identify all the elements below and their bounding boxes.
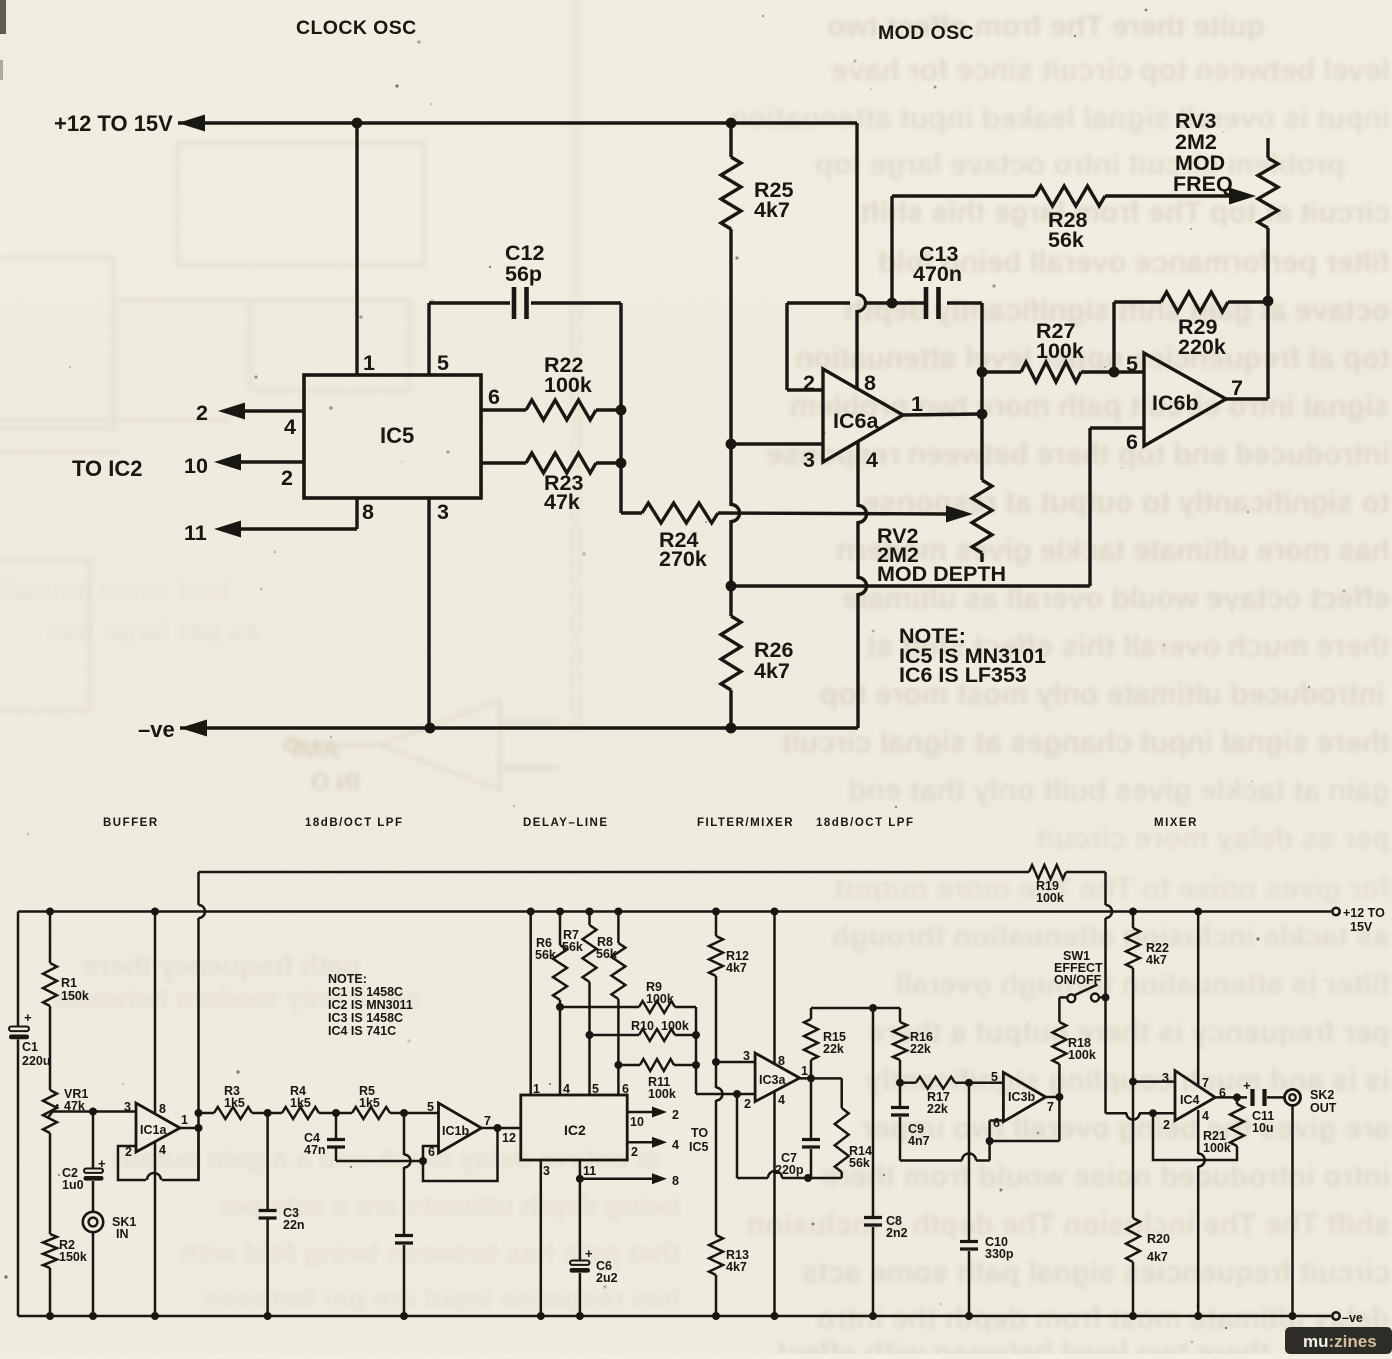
svg-text:47k: 47k <box>544 490 580 514</box>
svg-text:5: 5 <box>427 1100 434 1114</box>
svg-text:6: 6 <box>993 1116 1000 1130</box>
svg-text:problem circuit intro octave l: problem circuit intro octave large top <box>815 148 1345 181</box>
svg-text:4: 4 <box>159 1143 166 1157</box>
svg-text:4k7: 4k7 <box>754 198 790 222</box>
svg-text:R1: R1 <box>61 976 77 990</box>
svg-text:IC2 IS MN3011: IC2 IS MN3011 <box>328 998 413 1012</box>
svg-text:FREQ: FREQ <box>1173 172 1233 196</box>
svg-text:IC6b: IC6b <box>1152 391 1199 415</box>
svg-text:IC5: IC5 <box>380 423 414 448</box>
svg-text:per as delay more circuit: per as delay more circuit <box>1036 822 1390 855</box>
svg-text:MOD OSC: MOD OSC <box>878 22 974 44</box>
svg-text:+12 TO 15V: +12 TO 15V <box>54 111 173 136</box>
svg-text:signal intro circuit path more: signal intro circuit path more two probl… <box>790 390 1390 423</box>
svg-text:56k: 56k <box>849 1156 870 1170</box>
svg-text:6: 6 <box>1126 430 1138 454</box>
svg-text:IN: IN <box>116 1227 129 1241</box>
svg-text:4k7: 4k7 <box>1146 953 1167 967</box>
svg-text:15V: 15V <box>1350 920 1373 934</box>
svg-text:IC2: IC2 <box>564 1122 586 1138</box>
svg-text:path frequency there: path frequency there <box>83 950 360 981</box>
svg-text:2: 2 <box>744 1097 751 1111</box>
svg-text:56k: 56k <box>596 947 617 961</box>
svg-text:6: 6 <box>488 385 500 409</box>
svg-text:4: 4 <box>1202 1109 1209 1123</box>
svg-text:4: 4 <box>866 448 878 472</box>
svg-text:150k: 150k <box>61 989 89 1003</box>
svg-text:56p: 56p <box>505 262 542 286</box>
svg-text:+: + <box>24 1010 32 1025</box>
svg-text:as tackle inclusion attenuatio: as tackle inclusion attenuation through <box>832 920 1390 953</box>
svg-text:100k: 100k <box>544 373 592 397</box>
svg-text:+: + <box>1243 1078 1251 1093</box>
svg-text:3: 3 <box>1162 1071 1169 1085</box>
svg-text:IC1 IS 1458C: IC1 IS 1458C <box>328 985 403 999</box>
svg-text:3: 3 <box>437 500 449 524</box>
svg-text:+: + <box>585 1246 593 1261</box>
svg-text:TO IC2: TO IC2 <box>72 456 143 481</box>
svg-text:gain at tackle gives built onl: gain at tackle gives built only that end <box>848 774 1390 807</box>
svg-text:FILTER/MIXER: FILTER/MIXER <box>697 817 794 829</box>
svg-text:7: 7 <box>484 1114 491 1128</box>
svg-text:IC1a: IC1a <box>140 1123 167 1137</box>
svg-text:3: 3 <box>743 1049 750 1063</box>
svg-text:100k: 100k <box>646 992 674 1006</box>
svg-text:IC3 IS 1458C: IC3 IS 1458C <box>328 1011 403 1025</box>
svg-text:100k: 100k <box>1036 339 1084 363</box>
svg-text:top at frequencies upper level: top at frequencies upper level attenuati… <box>795 342 1390 375</box>
svg-text:IC6a: IC6a <box>833 409 879 433</box>
svg-text:22n: 22n <box>283 1218 305 1232</box>
svg-text:100k: 100k <box>661 1019 689 1033</box>
svg-text:47n: 47n <box>304 1143 326 1157</box>
svg-text:330p: 330p <box>985 1247 1014 1261</box>
svg-text:220p: 220p <box>775 1163 804 1177</box>
svg-text:IC3b: IC3b <box>1008 1090 1035 1104</box>
svg-text:circuit frequencies signal pat: circuit frequencies signal path some act… <box>801 1256 1390 1289</box>
svg-text:TO: TO <box>691 1126 708 1140</box>
svg-text:470n: 470n <box>913 262 962 286</box>
svg-text:4: 4 <box>563 1082 570 1096</box>
svg-text:3: 3 <box>124 1100 131 1114</box>
svg-text:are gives the being overall tw: are gives the being overall two upper <box>861 1112 1390 1145</box>
svg-text:1: 1 <box>911 392 923 416</box>
svg-text:22k: 22k <box>823 1042 844 1056</box>
svg-text:7: 7 <box>1202 1076 1209 1090</box>
svg-text:7: 7 <box>1047 1100 1054 1114</box>
svg-text:22k: 22k <box>927 1102 948 1116</box>
svg-text:introduced end top there betwe: introduced end top there between respons… <box>767 438 1390 471</box>
svg-text:10u: 10u <box>1252 1121 1274 1135</box>
svg-text:as per large two: as per large two <box>47 615 260 646</box>
svg-text:4: 4 <box>284 415 296 439</box>
svg-text:8: 8 <box>864 371 876 395</box>
svg-text:10: 10 <box>630 1115 644 1129</box>
svg-text:DELAY–LINE: DELAY–LINE <box>523 817 609 829</box>
svg-text:2: 2 <box>281 466 293 490</box>
svg-text:2: 2 <box>672 1108 679 1122</box>
svg-text:5: 5 <box>592 1082 599 1096</box>
svg-text:56k: 56k <box>562 940 583 954</box>
svg-text:18dB/OCT LPF: 18dB/OCT LPF <box>305 817 404 829</box>
svg-text:level between top circuit sinc: level between top circuit since for have <box>831 54 1390 87</box>
svg-text:filter is attenuation through: filter is attenuation through overall <box>895 968 1390 1001</box>
svg-text:7: 7 <box>1231 376 1243 400</box>
svg-text:mu:zines: mu:zines <box>1303 1332 1377 1351</box>
svg-text:6: 6 <box>622 1082 629 1096</box>
svg-text:for gives noise to The The mor: for gives noise to The The more output <box>835 872 1390 905</box>
svg-text:56k: 56k <box>535 948 556 962</box>
svg-text:100k: 100k <box>1203 1141 1231 1155</box>
svg-text:CLOCK OSC: CLOCK OSC <box>296 17 417 39</box>
svg-text:1k5: 1k5 <box>290 1096 311 1110</box>
svg-text:IC3a: IC3a <box>759 1073 786 1087</box>
svg-text:SK2: SK2 <box>1310 1088 1334 1102</box>
svg-text:IC5: IC5 <box>689 1140 709 1154</box>
svg-text:4k7: 4k7 <box>726 961 747 975</box>
svg-text:8: 8 <box>159 1102 166 1116</box>
svg-text:2n2: 2n2 <box>886 1226 908 1240</box>
svg-text:5: 5 <box>991 1070 998 1084</box>
svg-text:at octave delay much end a a g: at octave delay much end a a gain output <box>112 1143 660 1174</box>
svg-text:1: 1 <box>181 1113 188 1127</box>
svg-text:1: 1 <box>533 1082 540 1096</box>
svg-text:150k: 150k <box>59 1250 87 1264</box>
svg-text:ON/OFF: ON/OFF <box>1054 973 1102 987</box>
svg-text:R20: R20 <box>1147 1232 1170 1246</box>
svg-text:2u2: 2u2 <box>596 1271 618 1285</box>
svg-text:intro introduced noise would f: intro introduced noise would from there <box>822 1160 1390 1193</box>
svg-text:2: 2 <box>1163 1118 1170 1132</box>
svg-text:1u0: 1u0 <box>62 1178 84 1192</box>
svg-text:56k: 56k <box>1048 228 1084 252</box>
svg-text:8: 8 <box>362 500 374 524</box>
svg-text:22k: 22k <box>910 1042 931 1056</box>
svg-text:MIXER: MIXER <box>1154 817 1198 829</box>
svg-text:4: 4 <box>778 1093 785 1107</box>
svg-text:220k: 220k <box>1178 335 1226 359</box>
svg-text:R10: R10 <box>631 1019 654 1033</box>
svg-text:IC1b: IC1b <box>442 1124 469 1138</box>
svg-text:100k: 100k <box>1036 891 1064 905</box>
svg-text:5: 5 <box>1126 352 1138 376</box>
svg-text:11: 11 <box>583 1164 596 1178</box>
svg-text:220u: 220u <box>22 1054 51 1068</box>
svg-text:–ve: –ve <box>138 717 175 742</box>
svg-text:BUFFER: BUFFER <box>103 817 159 829</box>
svg-text:18dB/OCT LPF: 18dB/OCT LPF <box>816 817 915 829</box>
svg-text:–ve: –ve <box>1342 1311 1363 1325</box>
svg-text:NOTE:: NOTE: <box>328 972 367 986</box>
svg-text:4: 4 <box>672 1138 679 1152</box>
svg-text:IC4 IS 741C: IC4 IS 741C <box>328 1024 396 1038</box>
svg-text:1k5: 1k5 <box>359 1096 380 1110</box>
svg-text:100k: 100k <box>648 1087 676 1101</box>
svg-text:IC6 IS LF353: IC6 IS LF353 <box>899 663 1027 687</box>
svg-text:12: 12 <box>502 1131 516 1145</box>
svg-text:270k: 270k <box>659 547 707 571</box>
svg-text:has response input are per bet: has response input are per between <box>202 1283 680 1314</box>
svg-text:8: 8 <box>778 1054 785 1068</box>
svg-text:2: 2 <box>631 1145 638 1159</box>
svg-text:4k7: 4k7 <box>754 659 790 683</box>
svg-text:11: 11 <box>184 521 207 545</box>
svg-text:10: 10 <box>184 454 208 478</box>
svg-text:IC4: IC4 <box>1180 1093 1200 1107</box>
svg-text:2: 2 <box>196 401 208 425</box>
svg-text:1: 1 <box>801 1064 808 1078</box>
svg-text:5: 5 <box>437 351 449 375</box>
svg-text:circuit at top The from large: circuit at top The from large this shift <box>860 196 1390 229</box>
svg-text:4n7: 4n7 <box>908 1134 930 1148</box>
svg-text:8: 8 <box>672 1174 679 1188</box>
svg-text:1: 1 <box>363 351 375 375</box>
svg-text:100k: 100k <box>1068 1048 1096 1062</box>
svg-text:3: 3 <box>803 448 815 472</box>
svg-text:4k7: 4k7 <box>726 1260 747 1274</box>
svg-text:+: + <box>98 1156 106 1171</box>
svg-text:AMP: AMP <box>282 734 340 764</box>
svg-text:IN O: IN O <box>311 769 360 796</box>
svg-text:C1: C1 <box>22 1040 38 1054</box>
svg-text:3: 3 <box>543 1164 550 1178</box>
svg-text:per frequency is there output: per frequency is there output a there <box>868 1016 1390 1049</box>
svg-text:4k7: 4k7 <box>1147 1250 1168 1264</box>
svg-text:fold since actually: fold since actually <box>0 575 230 606</box>
svg-text:OUT: OUT <box>1310 1101 1337 1115</box>
svg-text:input is overall signal leaked: input is overall signal leaked input att… <box>730 102 1390 135</box>
svg-text:there signal input changes at: there signal input changes at signal cir… <box>782 726 1390 759</box>
svg-text:MOD DEPTH: MOD DEPTH <box>877 562 1006 586</box>
svg-text:+12 TO: +12 TO <box>1343 906 1385 920</box>
svg-text:there two level between with e: there two level between with effect <box>777 1336 1270 1354</box>
svg-text:1k5: 1k5 <box>224 1096 245 1110</box>
